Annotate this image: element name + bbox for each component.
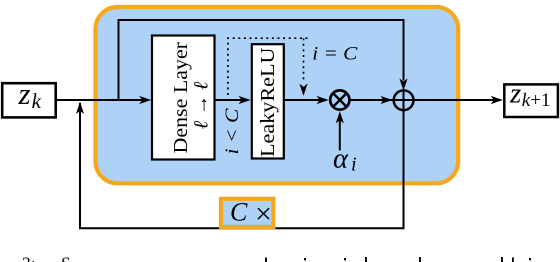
adder vertical diameter <box>403 91 405 111</box>
svg-text:ℓ → ℓ: ℓ → ℓ <box>191 81 213 129</box>
caption fragment ascender h <box>501 257 503 262</box>
caption fragment i dot <box>304 258 306 260</box>
multiplier cross <box>333 93 346 106</box>
arrowhead into dense layer <box>139 96 151 104</box>
dense layer box <box>152 36 215 160</box>
caption fragment ascender l <box>365 257 367 262</box>
arrowhead dotted into main wire <box>299 84 307 96</box>
svg-text:C: C <box>230 198 248 227</box>
svg-text:S: S <box>61 254 71 262</box>
arrowhead skip into adder <box>399 78 407 90</box>
leakyrelu box <box>252 44 284 158</box>
arrowhead into multiplier <box>317 96 329 104</box>
feedback wire from adder down and left <box>80 103 404 228</box>
wire multiplier to adder with horizontal diameter <box>351 99 415 101</box>
residual block container <box>96 7 459 183</box>
multiplier node circle <box>330 90 349 109</box>
dotted loop bracket <box>228 38 309 95</box>
arrowhead alpha into multiplier <box>336 111 344 123</box>
svg-text:3:: 3: <box>22 254 36 262</box>
arrowhead feedback into main wire <box>76 102 84 114</box>
wire dense to leakyrelu <box>215 99 244 101</box>
input box zk <box>2 83 56 117</box>
skip wire over the block <box>119 20 404 100</box>
wire alpha into multiplier <box>339 114 341 150</box>
svg-text:zk: zk <box>18 76 42 113</box>
C times repeat box <box>221 199 273 227</box>
wire adder to zk+1 <box>413 99 496 101</box>
caption fragment i dot <box>344 258 346 260</box>
wire leakyrelu to multiplier <box>284 99 322 101</box>
svg-text:i < C: i < C <box>222 108 243 154</box>
caption fragment ascender d <box>419 257 421 262</box>
svg-text:LeakyReLU: LeakyReLU <box>257 47 279 157</box>
svg-text:Dense Layer: Dense Layer <box>170 42 192 154</box>
caption fragment ascender i stem <box>512 258 514 262</box>
svg-text:×: × <box>255 197 272 230</box>
arrowhead into zk+1 box <box>491 96 503 104</box>
svg-text:zk+1: zk+1 <box>509 77 550 111</box>
svg-text:i = C: i = C <box>312 44 357 65</box>
dotted loop bracket right vertical <box>303 38 305 83</box>
arrowhead into adder <box>380 96 392 104</box>
adder node circle <box>394 90 414 110</box>
arrowhead into leakyrelu <box>239 96 251 104</box>
caption fragment ascender d <box>265 258 267 262</box>
wire zk to dense layer <box>56 99 145 101</box>
output box zk+1 <box>504 84 558 117</box>
caption fragment i dot <box>529 258 531 260</box>
